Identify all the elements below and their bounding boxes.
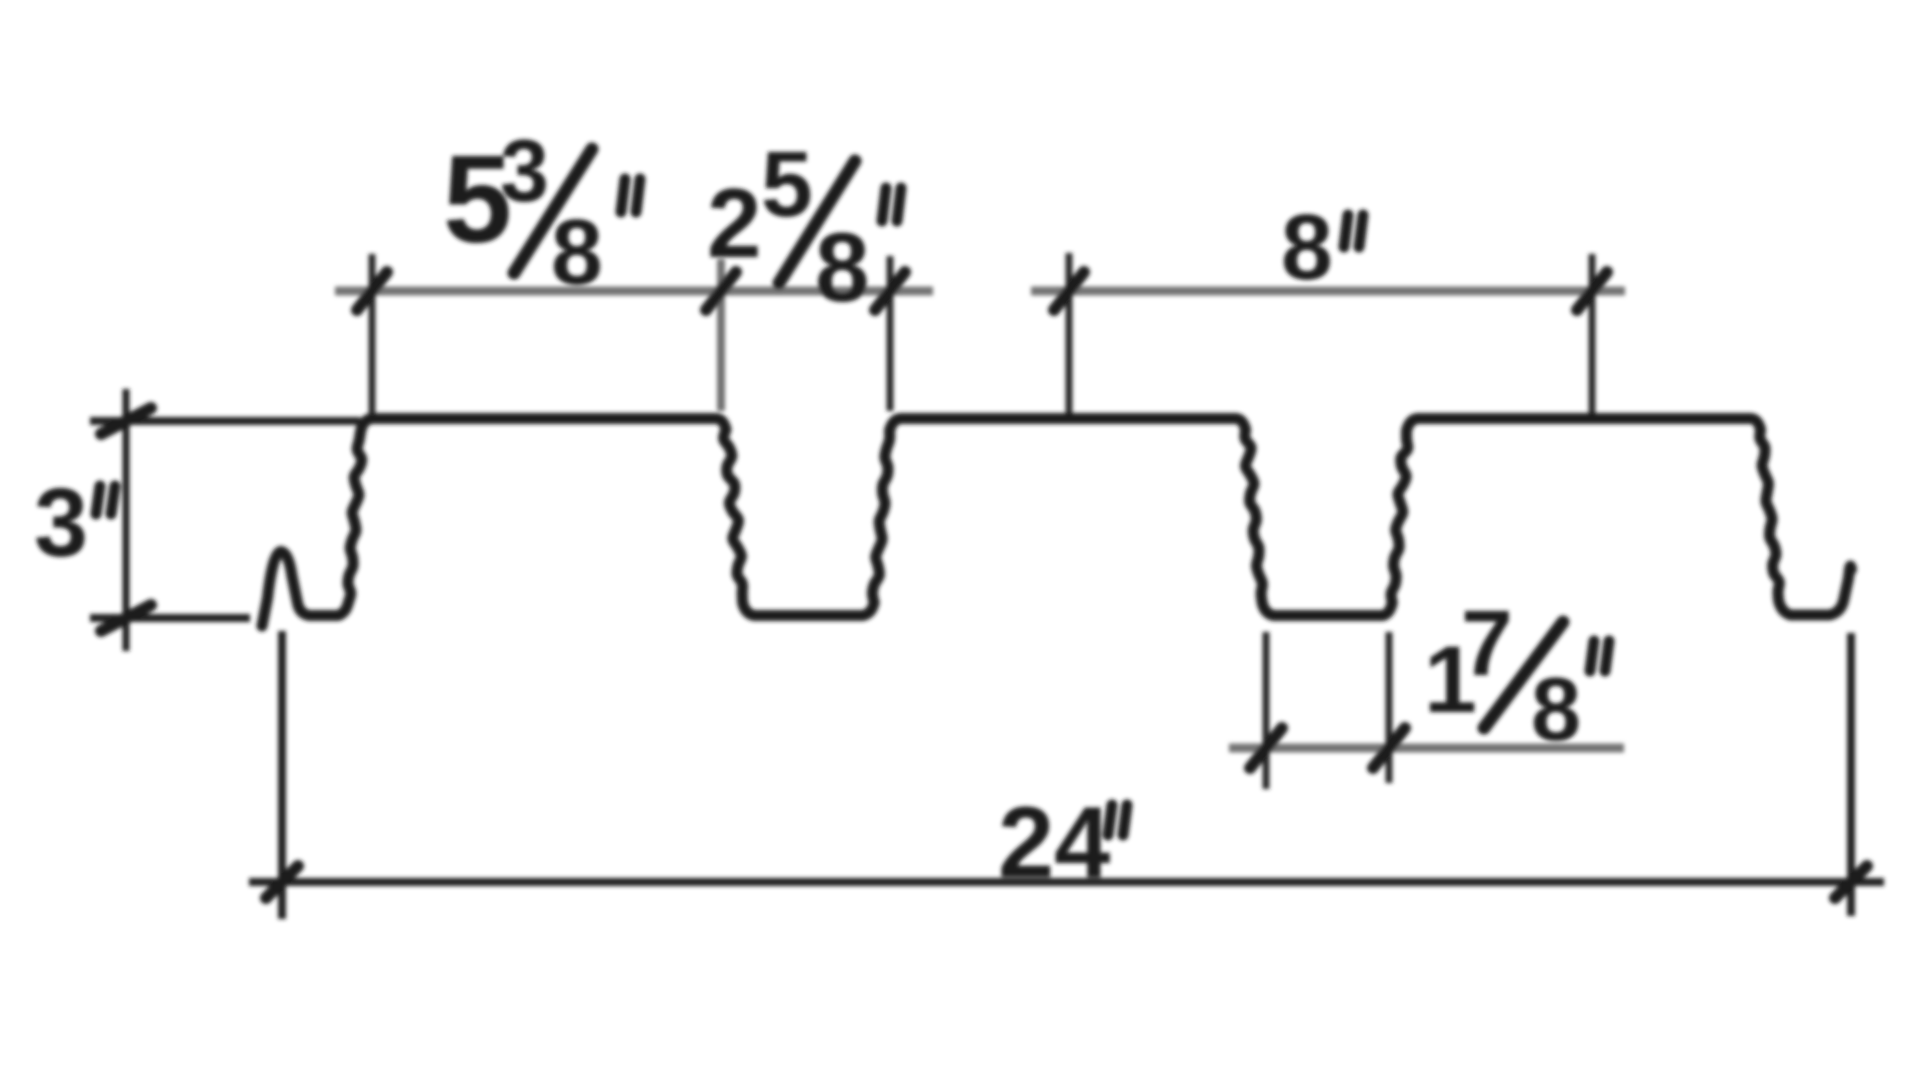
tick at 24in right [1835,866,1867,898]
svg-text:8: 8 [815,212,870,322]
dimension line: 1-7/8in (gray) [1229,744,1624,753]
extension line at x=890 [887,256,894,411]
tick at 8in left [1054,272,1084,310]
tick: 3in bottom [101,605,151,631]
extension line at x=721 (gray) [717,259,725,411]
svg-text:3: 3 [34,468,88,577]
extension line at x=1266 [1263,632,1270,789]
extension line at x=1592 [1589,254,1596,413]
svg-text:8: 8 [1531,660,1581,760]
svg-text:7: 7 [1461,591,1513,695]
tick at 24in left [266,866,298,898]
tick at 1-7/8 right [1373,728,1405,768]
extension line at x=1069 [1066,253,1073,413]
deck profile cross-section outline [262,419,1851,627]
svg-text:5: 5 [761,132,813,236]
tick at 8in right [1577,272,1607,310]
svg-text:2: 2 [707,168,762,278]
svg-text:24: 24 [998,787,1110,899]
extension line at x=282 [278,631,286,919]
extension line: bottom of 3in dimension [90,614,250,622]
svg-text:3: 3 [500,121,549,220]
tick: 3in top [101,408,151,434]
extension line at x=1389 [1386,632,1393,783]
dimension line: 5-3/8in and 2-5/8in (gray) [335,287,933,296]
tick at 2-5/8 right [875,272,905,310]
extension line: top of 3in dimension [90,417,360,425]
dimension line: 24in bottom [249,878,1884,886]
dimension line: 8in (gray) [1031,287,1625,296]
extension line at x=1851 [1847,633,1855,916]
extension line at x=372 [369,254,376,414]
svg-text:8: 8 [551,200,603,304]
tick at 5-3/8 right / 2-5/8 left [706,272,736,310]
svg-text:8: 8 [1281,195,1333,299]
right edge hook end knob [1844,563,1857,576]
dimension line: 3in vertical [123,389,130,651]
tick at 1-7/8 left [1250,728,1282,768]
tick at 5-3/8 left [357,272,387,310]
